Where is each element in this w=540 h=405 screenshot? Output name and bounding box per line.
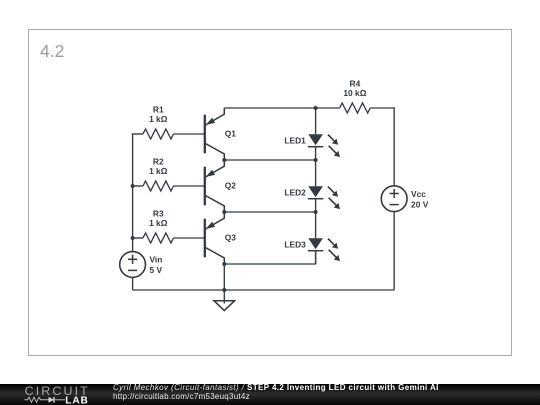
wire right rail lower (Vcc minus to ground rail) (393, 212, 395, 290)
Q2 collector lead (205, 196, 224, 213)
svg-text:Q2: Q2 (225, 181, 237, 191)
wire Q3 collector down to ground rail (223, 264, 225, 290)
wire R2 row: rail to zigzag (133, 185, 143, 187)
svg-text:Vcc: Vcc (411, 189, 426, 199)
LED3 diode triangle (308, 238, 323, 249)
svg-text:LED2: LED2 (284, 187, 306, 197)
svg-text:R2: R2 (153, 156, 164, 166)
ground symbol (214, 290, 235, 311)
schematic canvas frame (28, 29, 512, 356)
CircuitLab logo (22, 384, 92, 405)
Vcc minus sign (390, 204, 399, 206)
Q2 emitter arrow (206, 170, 215, 177)
wire R3 row: rail to zigzag (133, 237, 143, 239)
logo resistor squiggle (25, 397, 49, 402)
svg-text:LED3: LED3 (284, 239, 306, 249)
svg-text:5 V: 5 V (150, 265, 163, 275)
footer bar (0, 384, 540, 405)
voltage source Vin (120, 252, 163, 278)
wire node C: LED3 cathode to Q3 collector (224, 251, 315, 264)
wire R1 row: rail corner to zigzag (132, 133, 143, 135)
svg-text:Q1: Q1 (225, 129, 237, 139)
wire node B: Q2 collector to LED2 cathode junction (224, 211, 315, 213)
wire node A: Q1 collector to LED1 cathode junction (224, 159, 315, 161)
Q1 emitter arrow (206, 118, 215, 125)
Q3 collector lead (205, 248, 224, 265)
LED2 anode wire (315, 160, 317, 186)
wire bottom ground rail (133, 289, 395, 291)
resistor R2 (143, 156, 174, 191)
LED3 light arrow 2 (329, 250, 337, 258)
wire left rail (R1 corner down to Vin top) (132, 134, 134, 252)
junction LED2-LED3 node (314, 210, 318, 214)
LED3 cathode bar (308, 250, 323, 252)
junction ground tap on bottom rail (222, 288, 226, 292)
LED1 anode wire (315, 108, 317, 134)
svg-text:1 kΩ: 1 kΩ (149, 166, 168, 176)
Q3 emitter arrow (206, 222, 215, 229)
LED3 light arrow 1 (328, 239, 335, 246)
transistor Q2 (PNP) (205, 160, 236, 212)
LED LED2 (284, 160, 340, 212)
wire Vin bottom to ground rail (132, 277, 134, 290)
svg-text:R4: R4 (350, 78, 361, 88)
svg-text:Q3: Q3 (225, 233, 237, 243)
LED1 light arrow 1 (328, 135, 335, 142)
LED1 light arrow 2 (329, 146, 337, 154)
LED1 cathode wire (315, 147, 317, 160)
svg-text:R3: R3 (153, 208, 164, 218)
svg-text:Vin: Vin (150, 255, 163, 265)
svg-text:20 V: 20 V (411, 199, 429, 209)
Q1 collector lead (205, 144, 224, 161)
LED1 diode triangle (308, 134, 323, 145)
transistor Q1 (PNP) (205, 108, 236, 160)
wire R4 left lead from LED top node (316, 107, 340, 109)
svg-text:LAB: LAB (65, 395, 88, 405)
Vin plus sign (128, 258, 137, 260)
Q3 base bar (204, 219, 206, 258)
junction LED chain top / R4 (314, 106, 318, 110)
Q1 base bar (204, 115, 206, 154)
transistor Q3 (PNP) (205, 212, 236, 264)
LED2 cathode bar (308, 198, 323, 200)
wire top rail: Q1 emitter to LED chain top node (224, 107, 315, 109)
Vcc plus sign (390, 193, 399, 195)
junction Q3 collector / LED3 wire (222, 262, 226, 266)
wire R4 right lead to right rail corner (370, 107, 394, 109)
wire R2 to Q2 base (174, 185, 205, 187)
Q1 emitter lead (205, 108, 224, 125)
svg-text:LED1: LED1 (284, 135, 306, 145)
resistor R1 (143, 104, 174, 139)
wire R1 to Q1 base (174, 133, 205, 135)
figure number 4.2 (40, 41, 64, 62)
footer credit text (113, 383, 439, 401)
junction left rail / R2 (131, 184, 135, 188)
Q3 emitter lead (205, 212, 224, 229)
LED LED1 (284, 108, 340, 160)
LED2 light arrow 1 (328, 187, 335, 194)
voltage source Vcc (381, 186, 428, 212)
LED3 cathode wire (315, 251, 317, 264)
svg-text:10 kΩ: 10 kΩ (343, 88, 366, 98)
logo diode (49, 397, 55, 403)
LED2 light arrow 2 (329, 198, 337, 206)
Q2 base bar (204, 167, 206, 206)
junction left rail / R3 (131, 236, 135, 240)
LED LED3 (284, 212, 340, 264)
wire R3 to Q3 base (174, 237, 205, 239)
LED1 cathode bar (308, 146, 323, 148)
LED2 cathode wire (315, 199, 317, 212)
resistor R4 (340, 78, 371, 113)
Q2 emitter lead (205, 160, 224, 177)
junction LED1-LED2 node (314, 158, 318, 162)
svg-text:1 kΩ: 1 kΩ (149, 218, 168, 228)
LED3 anode wire (315, 212, 317, 238)
junction Q2 collector / Q3 emitter (222, 210, 226, 214)
Vin minus sign (128, 269, 137, 271)
wire right rail upper (R4 to Vcc plus) (393, 107, 395, 186)
svg-text:R1: R1 (153, 104, 164, 114)
svg-text:1 kΩ: 1 kΩ (149, 114, 168, 124)
resistor R3 (143, 208, 174, 243)
junction Q1 collector / Q2 emitter (222, 158, 226, 162)
LED2 diode triangle (308, 186, 323, 197)
